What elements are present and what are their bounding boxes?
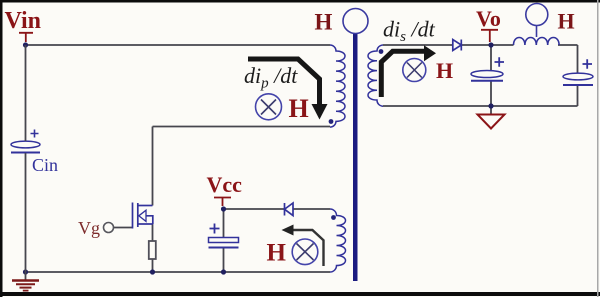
node bottom rail left junction dot xyxy=(23,269,28,274)
aux polarity dot xyxy=(331,215,336,220)
flux loop circle at core top xyxy=(343,9,368,34)
svg-text:H: H xyxy=(315,10,333,35)
wire: output right vertical through cap xyxy=(577,45,579,106)
svg-text:H: H xyxy=(289,94,309,123)
svg-text:Vcc: Vcc xyxy=(207,172,243,197)
ground (bottom left, bars) xyxy=(12,272,39,291)
stub from circle to inductor xyxy=(536,26,538,38)
wire: Vg gate lead xyxy=(114,227,133,229)
wire: Vcc vertical through cap to bottom rail xyxy=(223,209,225,272)
resistor R1 xyxy=(149,241,156,259)
flux symbol (out of page) aux xyxy=(292,239,318,265)
svg-text:dis /dt: dis /dt xyxy=(383,17,436,46)
node Vcc junction dot xyxy=(221,206,226,211)
inductor L1 xyxy=(514,38,560,46)
node resistor bottom junction dot xyxy=(150,269,155,274)
transformer primary winding xyxy=(330,45,345,127)
svg-text:Vin: Vin xyxy=(5,8,41,34)
diode D2 (aux, pointing left) xyxy=(285,203,294,216)
wire: MOSFET drain vertical xyxy=(152,127,154,206)
ground (output, triangle) xyxy=(478,115,505,129)
wire: bottom ground rail xyxy=(26,271,331,273)
svg-text:dip /dt: dip /dt xyxy=(244,63,298,92)
wire: top rail from Vin node to primary winding xyxy=(26,44,331,46)
wire: Vo cap vertical xyxy=(490,45,492,106)
diode D1 (secondary, pointing right) xyxy=(453,40,462,51)
capacitor Cin xyxy=(11,130,40,153)
node Vin junction dot xyxy=(23,42,28,47)
flux symbol (into page) near primary xyxy=(256,94,282,120)
svg-text:Cin: Cin xyxy=(32,155,58,175)
arrow di_p/dt (black) xyxy=(248,59,320,105)
transformer secondary winding xyxy=(368,45,383,106)
wire: Cin leads xyxy=(25,45,27,272)
svg-text:H: H xyxy=(267,240,287,267)
wire: Vcc node to aux diode and winding xyxy=(224,208,331,210)
arrow aux (gray, pointing left) xyxy=(293,230,324,266)
svg-text:H: H xyxy=(558,9,575,34)
svg-text:Vg: Vg xyxy=(78,218,100,238)
wire: primary bottom wire to MOSFET drain xyxy=(153,126,331,128)
Vin tick xyxy=(19,33,33,42)
flux loop circle above inductor xyxy=(526,4,548,26)
svg-text:H: H xyxy=(436,58,453,83)
svg-text:Vo: Vo xyxy=(476,6,501,31)
arrow di_s/dt (black) xyxy=(381,51,424,97)
wire: secondary top rail with diode gap and inductor gap xyxy=(383,44,578,46)
MOSFET body arrow xyxy=(139,210,146,221)
capacitor C2 (far right) xyxy=(563,59,593,85)
transformer core xyxy=(353,34,358,281)
Vcc tick xyxy=(214,198,231,207)
wire: MOSFET source to resistor to bottom rail xyxy=(152,224,154,272)
wire: stub from Vo rail to ground xyxy=(490,106,492,114)
wire: secondary bottom rail xyxy=(383,105,578,107)
flux symbol (into page) near secondary xyxy=(403,59,426,82)
capacitor C1 (output, at Vo) xyxy=(471,57,504,80)
node Vo bottom junction dot xyxy=(488,103,493,108)
transformer aux winding xyxy=(330,209,346,272)
capacitor C-Vcc xyxy=(209,224,239,248)
Vg terminal circle xyxy=(104,223,114,233)
node Vcc cap bottom junction dot xyxy=(221,269,226,274)
primary polarity dot xyxy=(329,119,334,124)
Vo tick xyxy=(481,30,498,42)
node Vo junction dot xyxy=(488,42,493,47)
transistor Q1 (MOSFET) xyxy=(133,203,153,229)
secondary polarity dot xyxy=(379,49,384,54)
